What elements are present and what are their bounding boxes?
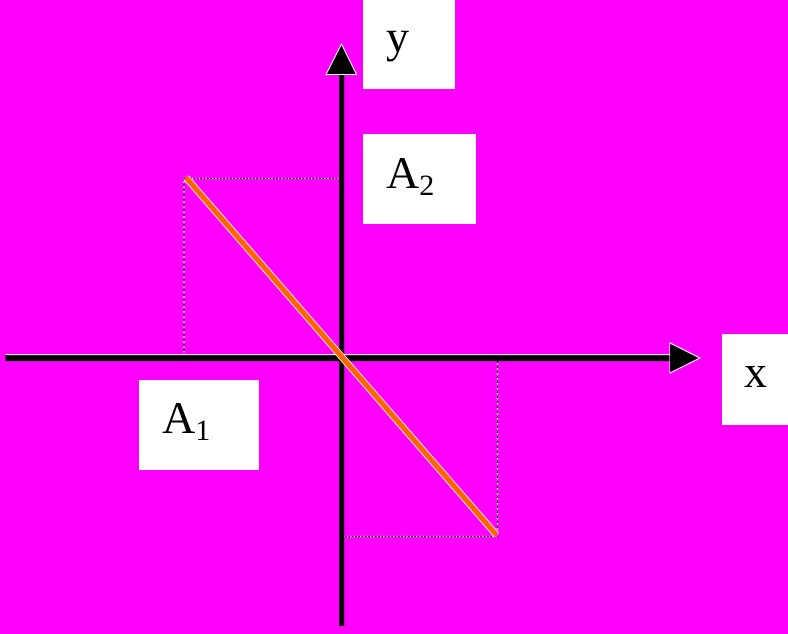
dotted vertical line left (x=184) [183,179,185,355]
dotted vertical line right (x=497.5) [497,361,499,537]
y axis line [339,70,344,626]
x axis arrowhead [670,343,700,373]
dotted horizontal line bottom (y=536.5) [342,536,498,538]
orange segment [186,178,497,536]
label box y [363,0,455,89]
orange segment white halo [186,178,497,536]
label box x [722,334,788,425]
label box A2 [363,134,476,224]
x axis line [6,355,673,359]
dotted horizontal line top (y=178.5) [184,178,341,180]
y axis arrowhead [326,44,357,75]
label box A1 [139,380,259,470]
